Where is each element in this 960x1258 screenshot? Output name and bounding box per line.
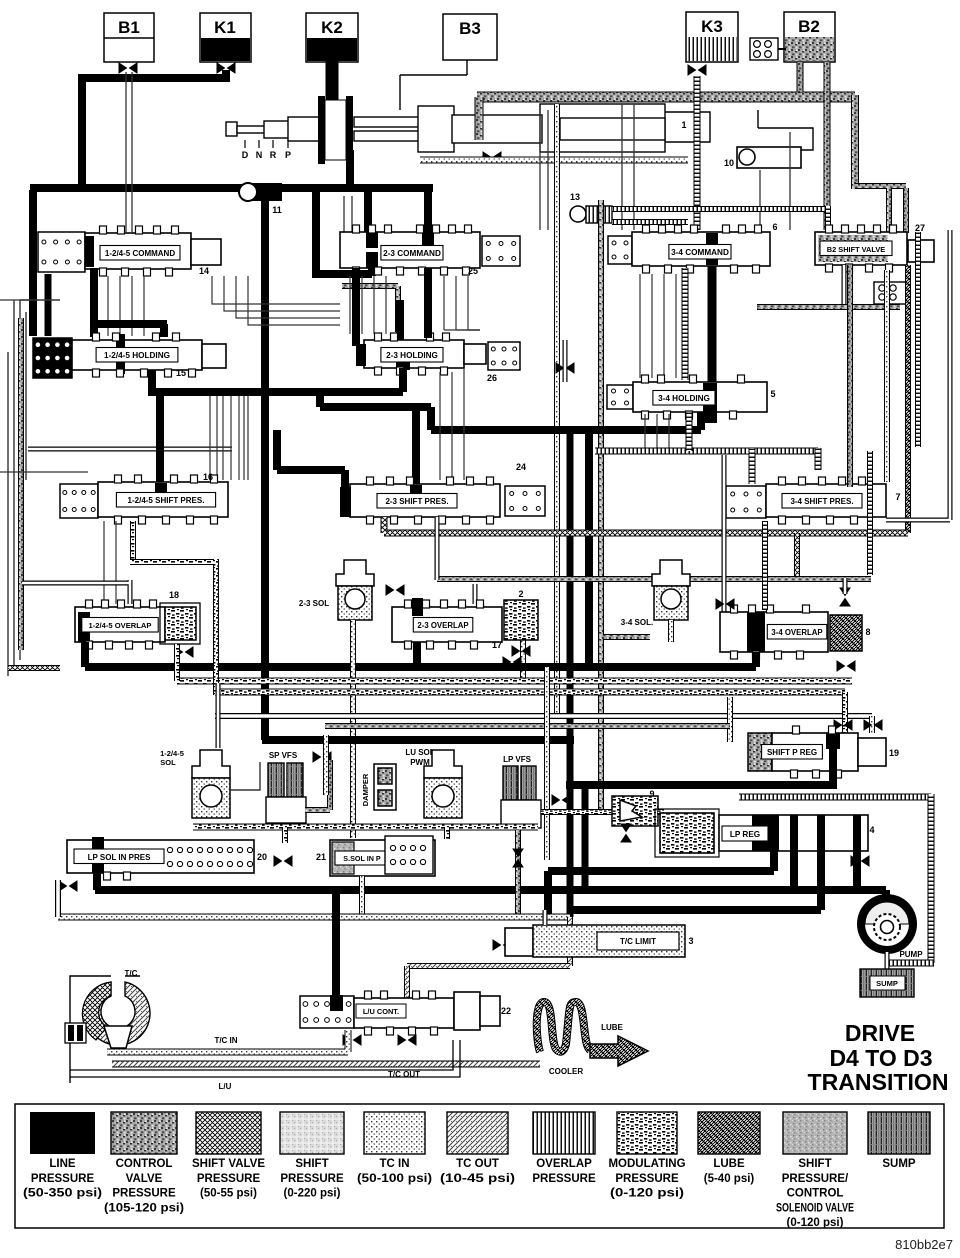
wire sol link [230,762,260,790]
pump inner [865,902,909,946]
svg-text:5: 5 [770,389,775,399]
svg-text:25: 25 [468,266,478,276]
wire 24 feed drop [412,407,420,486]
wire sp vfs out [305,760,330,810]
svg-text:L/U: L/U [219,1082,232,1091]
wire K2 shaft to main rail [346,150,354,190]
wire 9 to lp reg [658,809,664,815]
wire rail3 center drop [585,430,593,667]
svg-text:B3: B3 [459,19,481,38]
valve 3-4 COMMAND [632,225,770,273]
clutch box K2 [306,13,358,62]
wire tc out channel [112,1061,540,1068]
wire 16-18 link [22,580,130,604]
wire 26 right bundle b [451,372,453,480]
svg-text:3-4 COMMAND: 3-4 COMMAND [671,248,729,257]
solenoid LP VFS [501,766,541,828]
wire line rail 3 [431,426,701,434]
tc limit label box [597,932,679,950]
wire line rail 5b [566,781,833,789]
svg-text:1-2/4-5 SHIFT PRES.: 1-2/4-5 SHIFT PRES. [128,496,205,505]
wire overlap header [595,448,818,455]
svg-text:COOLER: COOLER [549,1067,583,1076]
wire rail to 2-3 command c [424,190,432,234]
wire 18 bottom mod drop [174,644,180,681]
tc limit body [533,925,685,957]
wire 3-4 cmd down bundle 0 [639,274,641,378]
wire lp reg down a [770,851,778,871]
valve 2-3 OVERLAP [392,598,502,649]
flow symbol lu a [343,1035,361,1045]
clutch K1 applied fill [201,38,250,61]
svg-text:P: P [285,150,291,160]
valve 1-2/4-5 OVERLAP [75,600,165,649]
flow symbol shift p reg a [834,720,852,730]
pump ring [857,894,917,954]
svg-text:18: 18 [169,590,179,600]
wire bundle center right b [547,110,549,230]
svg-text:DRIVE: DRIVE [845,1020,915,1046]
svg-text:2-3 COMMAND: 2-3 COMMAND [383,249,441,258]
valve 1-2/4-5 COMMAND [85,226,191,276]
wire 2-3 cmd-holding bundle 0 [349,276,351,334]
wire K1 to line rail [82,70,230,192]
b2 shift valve label box [820,241,892,256]
wire rail2 bundle 3 [230,396,232,480]
wire pump feed rail corner [544,871,552,917]
wire mod drop 21 [444,827,450,839]
valve SHIFT P REG [762,726,858,778]
wire 2-3 cmd right bundle 1 [456,276,480,330]
svg-text:20: 20 [257,852,267,862]
wire rail2 bundle 1 [216,396,218,480]
wire cmd-holding bundle 2 [131,276,133,336]
apply symbol K3 [688,65,706,75]
shaft clutch pack K2 [318,96,353,164]
valve LP REG [719,815,868,851]
svg-text:SHIFT VALVEPRESSURE(50-55 psi): SHIFT VALVEPRESSURE(50-55 psi) [192,1158,265,1200]
wire cmd-holding bundle 1 [119,276,121,336]
wire overlap drop into 8 [867,451,873,575]
wire right edge gray [886,230,950,520]
svg-text:K2: K2 [321,18,343,37]
svg-text:3-4 HOLDING: 3-4 HOLDING [658,394,710,403]
svg-text:6: 6 [772,222,777,232]
lu cont label box [356,1004,406,1018]
wire cmd jog bundle 0 [212,276,340,304]
s.sol striped block [332,842,354,874]
wire 16-mod drop [130,521,216,695]
wire B3 link [400,60,467,110]
flow symbol left of rail [59,881,77,891]
svg-text:D4 TO D3: D4 TO D3 [829,1045,932,1071]
valve 26 ext [464,344,486,364]
wire left edge elbow [8,665,60,671]
lp reg label box [722,826,768,841]
lp reg accumulator frame [655,809,719,857]
svg-text:1-2/4-5 HOLDING: 1-2/4-5 HOLDING [104,351,170,360]
flow symbol under 9 [621,824,631,842]
wire long dotted spine [554,104,560,717]
svg-text:22: 22 [501,1006,511,1016]
shaft flow symbol [483,152,501,162]
wire 2-3 sol drop [350,620,356,838]
wire k2 lower pair b [351,196,353,237]
wire mod header 2 [215,689,845,696]
wire 3-4 cmd down bundle 3 [675,274,677,378]
svg-text:LU SOL: LU SOL [405,748,434,757]
flow symbol lu b [398,1035,416,1045]
wire 2-3 cmd control out [342,286,398,332]
wire overlap drop to 7 [749,448,756,484]
wire 24 bottom to band [435,517,440,580]
svg-text:26: 26 [487,373,497,383]
svg-text:TRANSITION: TRANSITION [808,1069,949,1095]
wire 20 cap drop [93,870,101,890]
svg-text:14: 14 [199,266,209,276]
valve 3-4 SHIFT PRES. [766,477,886,524]
pump gear hub [881,921,894,934]
svg-text:3: 3 [688,936,693,946]
torque converter torus [82,982,150,1048]
svg-text:MODULATINGPRESSURE(0-120 psi): MODULATINGPRESSURE(0-120 psi) [608,1158,685,1200]
pump crescent [865,902,909,924]
svg-text:N: N [256,150,263,160]
wire line rail 2 [148,388,403,396]
valve 2 accumulator [504,600,538,640]
wire tc limit up [543,910,548,925]
svg-text:19: 19 [889,748,899,758]
svg-text:16: 16 [203,472,213,482]
solenoid 2-3 SOL [336,560,374,620]
svg-text:1-2/4-5: 1-2/4-5 [160,749,184,758]
valve 3-4 OVERLAP [720,605,828,659]
wire B2 drop a [797,62,804,92]
valve 2-3 HOLDING [356,333,464,375]
valve T/C LIMIT left [505,928,533,956]
wire rail to 2-3 command a [312,190,372,276]
wire 3-4 sol drop [668,620,674,642]
pilot block 3-4 shift pres [726,486,766,518]
wire pump feed rail b [95,886,886,894]
wire overlap to pump loop v [928,794,935,963]
svg-text:7: 7 [895,492,900,502]
legend frame [15,1104,944,1228]
svg-text:3-4 OVERLAP: 3-4 OVERLAP [771,628,822,637]
pilot block 2-3 command [482,236,520,266]
svg-text:21: 21 [316,852,326,862]
legend swatch shift [783,1112,847,1154]
svg-text:13: 13 [570,192,580,202]
wire valve2 dotted drop [520,637,526,681]
legend swatch shift-valve [196,1112,261,1154]
wire left horizontals b [0,471,88,473]
valve S.SOL IN P [330,840,435,876]
wire K2 clutch drop [326,61,339,108]
wire mod drop to shift p reg a [842,692,848,733]
svg-text:SUMP: SUMP [882,1158,916,1170]
wire b2 drop right b [903,188,909,233]
wire 3-4 cmd down bundle 2 [663,274,665,378]
wire cooler coil [537,1002,590,1052]
wire B1 drop a [125,72,127,232]
wire big gray return header [325,723,730,729]
wire speckle spine [601,200,650,812]
wire sump dotted return [58,914,570,921]
svg-text:27: 27 [915,223,925,233]
flow symbol under 4 [851,856,869,866]
wire center drop b [544,667,550,860]
flow symbol right of 8 [837,661,855,671]
wire right edge lube [905,265,911,533]
svg-text:B2 SHIFT VALVE: B2 SHIFT VALVE [827,245,886,254]
wire rail2 bundle 4 [238,396,240,480]
svg-text:SP VFS: SP VFS [269,751,298,760]
flow symbol shift p reg b [864,720,882,730]
svg-text:11: 11 [272,205,282,215]
wire rail2 bundle 0 [209,396,211,480]
valve 27 end block [908,240,934,262]
valve 15 end block [202,344,226,368]
solenoid LU SOL PWM [424,750,462,818]
svg-text:S.SOL IN P: S.SOL IN P [343,854,381,863]
flow symbol above 8 [840,588,850,606]
wire 26 right bundle a [439,372,441,480]
valve 10 [737,147,801,168]
wire left edge channel c [20,300,60,660]
wire 3-4 holding feed [563,340,568,382]
wire 2-3 cmd to holding cap [352,268,360,346]
wire lu channel [70,1040,460,1077]
flow symbol 17 [503,657,521,667]
valve 19 ext [858,738,886,766]
wire rail5 drop [582,785,589,890]
valve L/U CONT [354,991,454,1035]
clutch B2 control fill [785,37,834,61]
wire left horizontals a [0,299,38,301]
wire tcout loop vertical [567,917,573,966]
wire pump mid rail [573,906,821,914]
valve LP SOL IN PRES [67,837,254,880]
valve 18 accumulator frame [160,603,200,644]
wire 3-4 holding under drop [686,412,693,451]
svg-text:LP VFS: LP VFS [503,755,532,764]
svg-text:17: 17 [492,640,502,650]
wire header elbow feed [216,683,221,748]
wire lp reg down c [817,851,825,910]
wire shaft lower dotted channel [420,157,688,164]
selector shaft assembly [226,104,710,152]
shift p reg inlet block [748,733,772,771]
flow symbol sp vfs [313,752,331,762]
lp sol label box [74,849,164,864]
flow symbol left of 8 [716,599,734,609]
wire rail2 bundle 5 [243,396,245,480]
wire rail to 2-3 command b [364,190,372,234]
clutch box B2 [784,12,835,62]
flow symbol 3-4 holding feed [556,363,574,373]
clutch box K3 [686,12,738,62]
wire 3-4 cmd feed b [633,104,635,230]
wire rail2 to rail3 jog [320,392,431,430]
clutch box K1 [200,13,251,62]
wire band to 2-3 overlap [473,584,478,604]
solenoid 1-2/4-5 SOL [192,750,230,818]
svg-text:1-2/4-5 COMMAND: 1-2/4-5 COMMAND [105,249,175,258]
valve 1-2/4-5 HOLDING [72,333,202,377]
wire cmd-holding bundle 3 [143,276,145,336]
wire control header [477,92,855,103]
svg-text:PUMP: PUMP [899,950,923,959]
wire lp vfs out mod [541,809,612,815]
wire b2 drop right a [886,188,892,233]
wire 18 to line rail4 [81,642,89,667]
wire right edge control [847,265,853,487]
solenoid block 1-2/4-5 command [38,232,85,272]
wire 13 overlap link a2 [825,206,831,230]
legend swatch tc-out [447,1112,508,1154]
clutch box B3 [443,14,497,60]
svg-text:SHIFT P REG: SHIFT P REG [767,748,817,757]
wire cmd jog bundle 2 [236,276,340,318]
wire 2 to line rail4 [413,642,421,667]
wire 24 left feed [277,430,345,490]
gate tick D [244,140,246,148]
wire B1 drop b [131,72,133,232]
wire line rail left drop [29,190,37,336]
wire b2 shift valve top links [855,183,906,189]
pilot block 2-3 holding [488,342,520,370]
tc side block [65,1023,86,1043]
flow symbol under 18 [175,647,193,657]
wire tc in channel [107,1030,348,1052]
wire b2 valve bottom stub [842,265,847,305]
wire rail2 bundle 6 [247,396,249,480]
legend swatch lube [698,1112,760,1154]
pump gear [874,914,900,940]
wire band drop into 8 [843,578,848,594]
wire right edge dotted [884,270,890,482]
wire cmd jog bundle 3 [248,276,340,325]
wire holding drop b [160,324,168,337]
solenoid block 3-4 holding [607,385,633,409]
wire B2 drop b [824,62,831,230]
flow symbol tc limit [493,940,511,950]
B2 feed pump symbol [750,38,786,60]
valve 3-4 HOLDING [633,375,767,423]
wire drop to lu cont [332,890,340,1000]
gate tick R [272,140,274,148]
valve 14 end block [191,239,221,265]
torque converter outline [70,976,140,1083]
wire 3-4 cmd feed a [621,104,623,230]
valve 2-3 SHIFT PRES. [340,477,500,524]
gate tick N [258,140,260,148]
svg-text:DAMPER: DAMPER [361,773,370,806]
wire 2-3 cmd-holding bundle 3 [385,276,387,334]
svg-text:B2: B2 [798,17,820,36]
svg-text:K3: K3 [701,17,723,36]
wire line rail 5a [262,736,574,744]
apply symbol K1 [217,63,235,73]
wire 16 to 18 bundle 1 [115,521,117,604]
svg-text:1: 1 [681,120,686,130]
valve 8 accumulator [830,615,862,651]
wire 7 to 3-4 overlap [762,521,768,610]
wire cmd to holding drop a [90,268,98,337]
valve 10 ball [739,149,755,165]
svg-text:2-3 OVERLAP: 2-3 OVERLAP [417,621,468,630]
wire 2-3 cmd to holding top [396,300,404,340]
svg-text:K1: K1 [214,18,236,37]
svg-text:2: 2 [518,589,523,599]
wire left edge channel a [7,352,9,676]
damper body [374,764,396,810]
pilot block 1-2/4-5 shift pres [60,484,98,518]
wire b2 area feed b [789,132,791,230]
solenoid block 1-2/4-5 holding [33,338,72,378]
node 11 ball [239,183,257,201]
svg-text:T/C LIMIT: T/C LIMIT [620,937,656,946]
wire control header right drop [851,95,859,189]
svg-text:LUBE: LUBE [601,1023,623,1032]
gate tick P [287,140,289,148]
wire b2 valve return [757,304,900,310]
svg-text:810bb2e7: 810bb2e7 [895,1237,953,1252]
legend swatch line [30,1112,95,1154]
wire 3-4 holding down b [656,414,658,448]
wire K3 overlap drop [694,76,701,230]
solenoid block 3-4 command [608,236,632,264]
wire 26 right bundle c [463,368,465,480]
wire left edge channel b [13,300,15,668]
clutch box B1 divider [104,37,154,39]
wire pump feed rail a [548,867,774,875]
wire left edge channel d [25,312,27,480]
wire 3-4 cmd mid drop [708,266,717,384]
wire 2-3 holding bottom drop [399,368,407,392]
svg-text:L/U CONT.: L/U CONT. [363,1007,399,1016]
wire main line rail [30,184,433,192]
wire 2-3 cmd-holding bundle 1 [361,276,363,334]
wire b2 area feed a [759,170,761,230]
svg-text:LP SOL IN PRES: LP SOL IN PRES [88,853,151,862]
svg-text:10: 10 [724,158,734,168]
wire bundle center right a [539,110,541,230]
wire pump to sump [885,952,890,969]
svg-text:T/C IN: T/C IN [214,1036,237,1045]
lp sol dots [167,847,172,852]
svg-text:15: 15 [176,368,186,378]
svg-text:2-3 SHIFT PRES.: 2-3 SHIFT PRES. [385,497,448,506]
wire 13 overlap link b [612,219,688,225]
wire 3-4 holding down c [668,414,670,448]
wire 2-3 cmd right bundle 2 [468,276,480,330]
legend swatch control [111,1112,177,1154]
svg-text:3-4 SOL.: 3-4 SOL. [621,618,653,627]
valve 22 ext b [480,996,500,1026]
wire lp reg down b [790,851,798,890]
svg-text:1-2/4-5 OVERLAP: 1-2/4-5 OVERLAP [89,621,152,630]
svg-text:2-3 HOLDING: 2-3 HOLDING [386,351,438,360]
wire band to 3-4 overlap [722,455,727,612]
wire right edge overlap [915,232,921,447]
solenoid SP VFS [266,763,306,823]
wire shift hatch header [384,530,908,537]
wire 2-3 cmd long drop [424,268,432,338]
wire line rail 4 [85,663,756,671]
wire 13 overlap link a [612,206,828,212]
